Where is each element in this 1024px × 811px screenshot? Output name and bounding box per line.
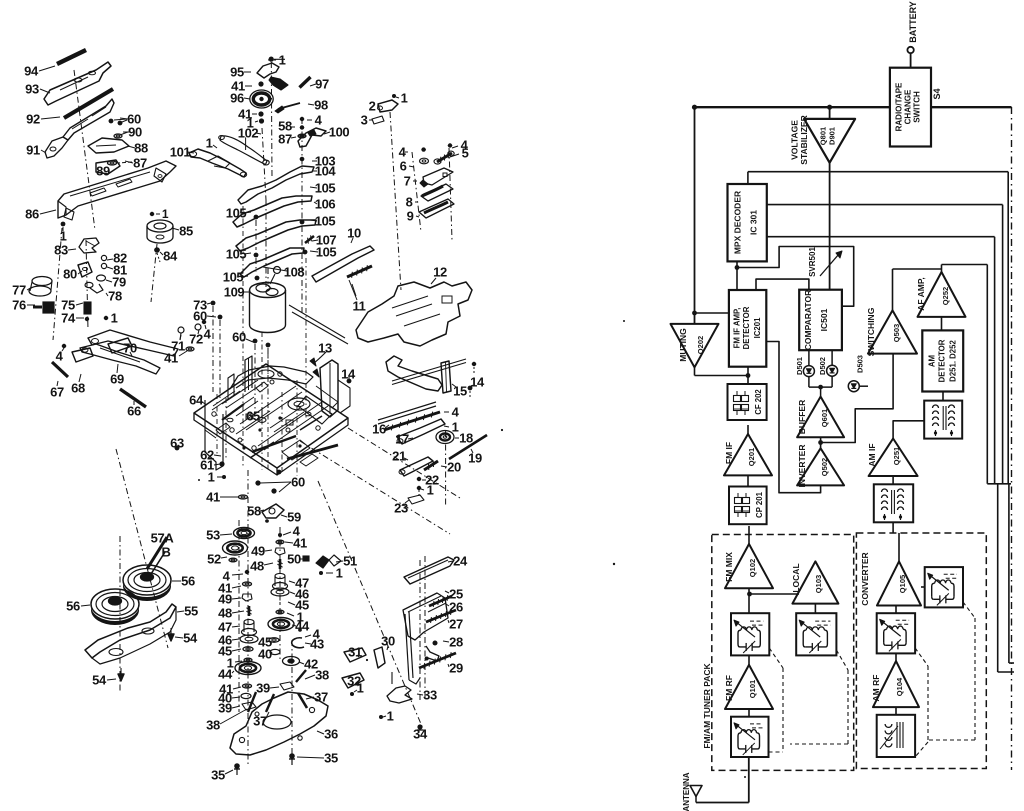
- svg-text:16: 16: [372, 422, 386, 437]
- svg-text:1: 1: [208, 470, 215, 485]
- screw 14 right: [468, 386, 473, 391]
- svg-text:41: 41: [164, 351, 178, 366]
- pin 3: [372, 116, 384, 124]
- svg-text:1: 1: [452, 420, 459, 435]
- ceramic filter CP201: [729, 487, 767, 525]
- gear 18: [436, 431, 454, 444]
- svg-text:57A: 57A: [151, 531, 175, 546]
- gear 47 left: [244, 619, 254, 624]
- ring 78: [85, 282, 93, 287]
- screw 61 dot: [219, 461, 224, 466]
- AM IF amp Q251: [869, 439, 918, 477]
- svg-text:B: B: [162, 545, 171, 560]
- svg-text:36: 36: [324, 727, 338, 742]
- chassis right wall lever 13: [320, 360, 338, 417]
- svg-text:Q252: Q252: [941, 287, 950, 305]
- wire muting power: [694, 107, 696, 324]
- stick 38 left: [248, 692, 256, 712]
- bracket 12: [356, 282, 472, 346]
- svg-text:101: 101: [170, 145, 191, 160]
- lever assy 15: [386, 356, 442, 391]
- knob 50: [303, 556, 309, 561]
- svg-text:AF AMP,: AF AMP,: [916, 277, 926, 311]
- svg-text:CONVERTER: CONVERTER: [860, 552, 870, 605]
- motor pulley 108: [274, 267, 281, 274]
- svg-text:51: 51: [343, 554, 357, 569]
- lever 21: [400, 457, 433, 476]
- svg-text:Q101: Q101: [748, 680, 757, 698]
- plate 7: [423, 168, 453, 185]
- svg-text:60: 60: [193, 309, 207, 324]
- gear 42: [283, 657, 300, 666]
- svg-text:105: 105: [316, 245, 337, 260]
- pin 97: [300, 77, 311, 88]
- svg-text:89: 89: [96, 164, 110, 179]
- chassis deck: [194, 364, 348, 468]
- svg-text:COMPARATOR: COMPARATOR: [803, 290, 813, 350]
- svg-text:54: 54: [92, 673, 107, 688]
- svg-text:SVR501: SVR501: [808, 247, 817, 277]
- svg-text:41: 41: [293, 536, 307, 551]
- AF amp Q252: [918, 272, 966, 317]
- svg-text:50: 50: [287, 552, 301, 567]
- svg-text:2: 2: [369, 99, 376, 114]
- screws 73 60 over chassis: [211, 301, 216, 306]
- screw 1 22: [417, 486, 421, 490]
- svg-text:108: 108: [284, 265, 305, 280]
- head bracket row 105a: [233, 196, 312, 227]
- svg-text:17: 17: [395, 432, 409, 447]
- bracket 93: [44, 62, 111, 105]
- svg-text:8: 8: [406, 195, 413, 210]
- diodes D501 D502 D503: [808, 350, 810, 365]
- wire hook 28: [426, 646, 439, 661]
- svg-text:79: 79: [112, 275, 126, 290]
- rod 98: [278, 103, 300, 109]
- screws 105 right column: [300, 220, 305, 225]
- svg-text:BUFFER: BUFFER: [797, 400, 807, 434]
- svg-text:11: 11: [353, 299, 366, 314]
- spring 107: [305, 236, 314, 243]
- svg-text:91: 91: [26, 143, 40, 158]
- stack axes: [238, 520, 240, 712]
- pin 71: [178, 327, 184, 333]
- antenna: [690, 786, 702, 797]
- plate 9: [419, 199, 454, 218]
- screw 4 left: [62, 344, 66, 348]
- svg-text:Q105: Q105: [898, 575, 907, 593]
- svg-text:D501: D501: [795, 357, 804, 375]
- svg-text:102: 102: [238, 126, 259, 141]
- svg-text:48: 48: [218, 606, 232, 621]
- svg-text:90: 90: [128, 125, 142, 140]
- wire IC201 out to inverter: [766, 342, 820, 493]
- left stack small parts: [245, 570, 249, 574]
- svg-text:Q601: Q601: [820, 409, 829, 427]
- washer 81: [101, 263, 106, 268]
- svg-text:44: 44: [218, 667, 233, 682]
- svg-text:CF 202: CF 202: [754, 389, 763, 415]
- svg-text:55: 55: [184, 604, 198, 619]
- svg-text:97: 97: [315, 77, 329, 92]
- lever 70: [88, 330, 178, 356]
- bracket 91 foot: [45, 137, 68, 158]
- muting amp Q202: [671, 324, 719, 367]
- wire T1 to det: [942, 392, 944, 401]
- svg-text:76: 76: [12, 298, 26, 313]
- lever 102: [220, 136, 267, 165]
- rod 66: [120, 389, 146, 407]
- svg-text:15: 15: [453, 384, 467, 399]
- svg-text:80: 80: [63, 267, 77, 282]
- svg-text:34: 34: [413, 727, 428, 742]
- svg-text:FM IF: FM IF: [724, 442, 734, 464]
- ring 72: [195, 324, 201, 330]
- svg-text:Q102: Q102: [748, 559, 757, 577]
- svg-text:35: 35: [211, 768, 225, 783]
- axis 5-9: [449, 148, 452, 240]
- wire switching out: [892, 269, 894, 310]
- clip 39 left: [242, 702, 256, 710]
- wire MPX top to power line: [747, 172, 749, 184]
- cring 43: [292, 638, 304, 648]
- spring 20: [424, 461, 438, 470]
- clip 39 right: [280, 682, 294, 690]
- screw 60 pair low: [255, 480, 260, 485]
- svg-text:6: 6: [400, 159, 407, 174]
- svg-text:77: 77: [12, 283, 26, 298]
- spring 27: [426, 610, 456, 622]
- wire MPX outputs right: [767, 204, 1003, 206]
- gear 96: [250, 90, 273, 108]
- svg-text:40: 40: [258, 647, 272, 662]
- lever 31: [344, 648, 366, 662]
- wire coil to Q105: [921, 586, 925, 588]
- svg-text:3: 3: [361, 113, 368, 128]
- motor screws 105 left column: [254, 215, 259, 220]
- battery terminal: [907, 47, 913, 53]
- svg-text:100: 100: [329, 125, 350, 140]
- svg-text:1: 1: [427, 483, 434, 498]
- svg-text:STABILIZER: STABILIZER: [799, 115, 809, 164]
- svg-text:BATTERY: BATTERY: [908, 1, 918, 43]
- svg-text:CHANGE: CHANGE: [904, 89, 913, 124]
- screw 35 right: [289, 753, 295, 759]
- svg-text:95: 95: [230, 65, 244, 80]
- svg-text:IC201: IC201: [753, 317, 762, 338]
- axis top-left: [74, 70, 95, 230]
- bracket 12 feet lines: [289, 305, 345, 338]
- svg-text:Q801: Q801: [819, 127, 828, 145]
- comparator IC501: [799, 290, 842, 351]
- belt 57A B: [147, 537, 167, 569]
- wire coil to Q102: [748, 655, 750, 665]
- svg-text:S4: S4: [932, 88, 942, 99]
- wire buffer-inverter junction to switching: [820, 437, 822, 448]
- gear 44 left: [235, 662, 261, 675]
- svg-text:Q503: Q503: [892, 324, 901, 342]
- screw 28: [433, 641, 438, 646]
- chassis front tabs: [300, 454, 318, 466]
- svg-text:FM/AM TUNER PACK: FM/AM TUNER PACK: [702, 662, 712, 748]
- inverter Q502: [797, 448, 844, 485]
- screw 34: [417, 724, 422, 729]
- plate 8: [421, 184, 453, 201]
- right edge vertical wires: [1002, 205, 1004, 484]
- svg-text:72: 72: [189, 332, 203, 347]
- svg-text:105: 105: [223, 270, 244, 285]
- screws 60 top pair: [109, 119, 114, 124]
- screw 1 row74: [104, 316, 108, 320]
- spring 5: [437, 153, 452, 162]
- svg-text:35: 35: [324, 751, 338, 766]
- washer 1 under41: [259, 118, 264, 123]
- svg-text:83: 83: [54, 243, 68, 258]
- screw 35 left: [234, 763, 240, 769]
- svg-text:Q104: Q104: [895, 677, 904, 696]
- screw 54 left: [118, 674, 124, 681]
- wire switch right to edge: [931, 106, 1012, 108]
- svg-text:27: 27: [449, 617, 463, 632]
- svg-text:48: 48: [250, 559, 264, 574]
- wedge 68: [72, 348, 93, 362]
- buffer Q601: [797, 397, 844, 438]
- svg-text:Q201: Q201: [747, 448, 756, 466]
- ceramic filter CF202: [728, 384, 767, 420]
- hook 30: [374, 647, 385, 668]
- bracket 55: [85, 604, 176, 658]
- svg-text:D901: D901: [828, 127, 837, 145]
- bracket 89: [96, 160, 120, 174]
- svg-text:29: 29: [449, 661, 463, 676]
- svg-text:69: 69: [110, 372, 124, 387]
- spring 82: [101, 255, 106, 260]
- axis 95 column: [262, 128, 266, 200]
- arrow 13: [314, 351, 327, 363]
- svg-text:105: 105: [226, 206, 247, 221]
- voltage stabilizer Q801 D901: [804, 119, 855, 163]
- svg-text:94: 94: [24, 64, 39, 79]
- flange 46 right: [271, 588, 289, 596]
- svg-text:21: 21: [392, 449, 406, 464]
- svg-text:CP 201: CP 201: [755, 491, 764, 518]
- rod 92: [64, 89, 113, 118]
- wire Q251 to T1: [893, 421, 924, 439]
- svg-text:1: 1: [111, 311, 118, 326]
- gear 52: [223, 541, 248, 555]
- gear 44 right: [268, 618, 294, 631]
- link 101: [189, 149, 246, 177]
- ring 79: [97, 275, 106, 281]
- wire muting tap: [694, 367, 696, 375]
- head bracket row 107: [240, 248, 304, 277]
- screw 4 43: [298, 628, 302, 632]
- svg-text:4: 4: [315, 113, 323, 128]
- rod 94: [57, 50, 86, 64]
- gear 46 left: [240, 635, 258, 643]
- wire Q201-CP201: [747, 475, 749, 486]
- screw 4 98: [300, 117, 304, 121]
- gang dashed links: [769, 648, 783, 668]
- svg-text:Q251: Q251: [892, 447, 901, 465]
- stick 37 left: [266, 694, 274, 712]
- svg-text:19: 19: [468, 451, 482, 466]
- wire Q102 to CP201: [748, 526, 750, 544]
- washer 41 mid: [186, 347, 194, 351]
- FM IF amp detector IC201: [729, 290, 766, 367]
- clamp 51: [316, 556, 329, 568]
- AM IF transformer T1: [924, 401, 962, 439]
- svg-text:65: 65: [246, 409, 260, 424]
- svg-text:60: 60: [291, 475, 305, 490]
- screw 4 right71: [202, 320, 206, 324]
- ring 40 right: [270, 649, 280, 654]
- AM RF amp Q104: [873, 661, 919, 707]
- svg-text:64: 64: [189, 393, 204, 408]
- head bracket row 106: [236, 220, 316, 251]
- chassis details: [288, 398, 310, 410]
- left wall 64: [205, 400, 223, 470]
- axis 80 cluster: [86, 240, 88, 330]
- svg-text:88: 88: [134, 141, 148, 156]
- bellcrank 58 59: [262, 504, 284, 518]
- lever 32: [342, 673, 364, 688]
- svg-text:AM IF: AM IF: [867, 443, 877, 466]
- svg-text:Q202: Q202: [696, 336, 705, 354]
- svg-text:1: 1: [387, 709, 394, 724]
- rod 67: [52, 362, 68, 377]
- svg-text:ANTENNA: ANTENNA: [682, 772, 691, 811]
- hinge parts 103 104: [300, 125, 304, 129]
- gear 53: [234, 528, 255, 539]
- screw 1 top95: [269, 57, 274, 62]
- FM IF amp Q201: [724, 434, 772, 475]
- chassis dark rods: [287, 445, 338, 459]
- svg-text:5: 5: [462, 146, 469, 161]
- washer 74: [85, 317, 89, 321]
- svg-text:56: 56: [181, 574, 195, 589]
- svg-text:10: 10: [347, 226, 361, 241]
- svg-text:FM RF: FM RF: [724, 675, 734, 701]
- bracket 33: [387, 686, 412, 703]
- frame 25: [403, 593, 448, 640]
- svg-text:IC 301: IC 301: [749, 210, 759, 235]
- svg-text:44: 44: [295, 619, 310, 634]
- bracket 100: [298, 128, 326, 147]
- clip 23: [408, 495, 424, 504]
- wedge 69: [108, 338, 132, 353]
- svg-text:31: 31: [348, 645, 362, 660]
- svg-text:41: 41: [206, 490, 220, 505]
- screw 63: [175, 446, 180, 451]
- washer 87: [108, 161, 117, 165]
- svg-text:63: 63: [170, 436, 184, 451]
- screw 84: [154, 247, 160, 253]
- svg-text:54: 54: [183, 631, 198, 646]
- screw 22: [417, 477, 421, 481]
- screw 58 87 small: [300, 126, 304, 130]
- lever 2: [378, 100, 398, 112]
- screw 1 33: [379, 715, 383, 719]
- svg-text:1: 1: [336, 566, 343, 581]
- svg-text:1: 1: [357, 681, 364, 696]
- svg-text:IC501: IC501: [819, 308, 829, 331]
- screw 1 32: [350, 692, 354, 696]
- svg-text:39: 39: [256, 681, 270, 696]
- svg-text:85: 85: [179, 224, 193, 239]
- svg-text:93: 93: [25, 82, 39, 97]
- local osc Q103: [792, 561, 838, 603]
- svg-text:105: 105: [315, 214, 336, 229]
- bracket 83: [79, 238, 99, 253]
- dash-dot page edge line: [1011, 107, 1013, 770]
- shaft 47 right: [275, 573, 285, 578]
- long dash guide B: [318, 481, 424, 731]
- svg-text:LOCAL: LOCAL: [791, 563, 801, 592]
- screw 1 above 85: [150, 212, 154, 216]
- svg-text:87: 87: [278, 132, 292, 147]
- strip 10: [312, 246, 374, 282]
- spring 11: [347, 266, 372, 277]
- spring 29: [419, 653, 456, 668]
- svg-text:SWITCH: SWITCH: [913, 91, 922, 123]
- dashed box FM/AM tuner pack: [712, 535, 854, 771]
- rod 19: [449, 435, 487, 459]
- svg-text:12: 12: [433, 265, 447, 280]
- bracket 24: [404, 557, 454, 584]
- wire Q251 to T2: [892, 476, 894, 484]
- svg-text:106: 106: [315, 197, 336, 212]
- grommet 77: [32, 277, 52, 286]
- FM RF coil box: [731, 717, 769, 757]
- wire MPX bottom to IC201 and comparator: [736, 261, 738, 290]
- screw 1 above 83: [61, 222, 66, 227]
- mount 85: [147, 220, 173, 232]
- rod 16: [378, 402, 436, 420]
- converter osc coil box: [925, 567, 963, 607]
- svg-text:58: 58: [247, 504, 261, 519]
- svg-text:49: 49: [251, 544, 265, 559]
- FM mixer coil box: [731, 613, 769, 655]
- svg-text:104: 104: [315, 164, 337, 179]
- svg-text:D251. D252: D251. D252: [949, 340, 958, 382]
- svg-text:98: 98: [314, 98, 328, 113]
- svg-text:24: 24: [453, 554, 468, 569]
- svg-text:43: 43: [310, 637, 324, 652]
- block 76: [43, 302, 54, 313]
- svg-text:37: 37: [253, 714, 267, 729]
- svg-text:FM IF AMP,: FM IF AMP,: [733, 308, 742, 349]
- FM RF amp Q101: [725, 665, 773, 709]
- wire antenna to FM RF: [696, 802, 749, 804]
- switching Q503: [868, 310, 917, 353]
- svg-text:67: 67: [50, 385, 64, 400]
- svg-text:56: 56: [66, 599, 80, 614]
- svg-text:14: 14: [470, 375, 485, 390]
- FM mixer Q102: [725, 544, 773, 588]
- svg-text:1: 1: [162, 207, 169, 221]
- wire Q105 up to T2: [892, 522, 894, 533]
- local osc coil box: [796, 613, 836, 655]
- wire diodes to buffer: [808, 377, 810, 388]
- svg-text:VOLTAGE: VOLTAGE: [790, 120, 800, 160]
- svg-text:4: 4: [204, 327, 212, 342]
- svg-text:MPX DECODER: MPX DECODER: [733, 191, 743, 254]
- post 80: [78, 262, 92, 277]
- washer 41 above96: [258, 81, 263, 86]
- svg-text:20: 20: [447, 460, 461, 475]
- svg-text:DETECTOR: DETECTOR: [938, 339, 947, 382]
